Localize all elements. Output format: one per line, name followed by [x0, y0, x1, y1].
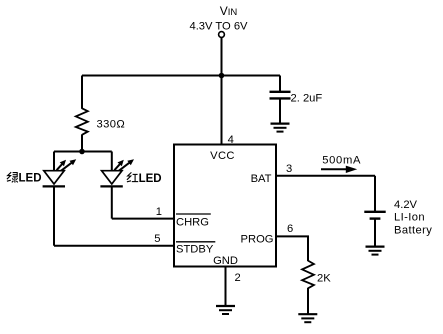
svg-text:2. 2uF: 2. 2uF: [291, 93, 323, 105]
node VIN label: [189, 4, 248, 33]
pin label CHRG overline: [176, 214, 211, 229]
wire D2 anode: [111, 152, 113, 172]
svg-text:2: 2: [235, 272, 241, 284]
wire BAT down to battery: [374, 176, 376, 211]
svg-text:2K: 2K: [317, 272, 331, 284]
svg-text:LED: LED: [19, 172, 42, 184]
wire cap branch down: [279, 76, 281, 92]
ground R2: [298, 314, 317, 322]
ground battery: [366, 247, 385, 255]
LED D1 green: [43, 159, 77, 186]
svg-text:PROG: PROG: [241, 234, 274, 246]
svg-text:5: 5: [154, 233, 160, 245]
svg-text:500mA: 500mA: [322, 155, 361, 167]
LED D2 red: [100, 159, 134, 186]
svg-text:4.2V: 4.2V: [394, 199, 418, 211]
wire horizontal bus: [82, 75, 280, 77]
svg-text:VCC: VCC: [210, 150, 235, 162]
wire to pin 1: [112, 218, 174, 220]
label green LED: [7, 172, 42, 184]
svg-text:CHRG: CHRG: [176, 217, 209, 229]
wire cap to ground: [279, 98, 281, 123]
svg-text:Battery: Battery: [394, 224, 432, 236]
wire D2 cathode down: [111, 186, 113, 218]
svg-text:GND: GND: [213, 255, 238, 267]
label battery: [394, 199, 432, 236]
ground C1: [271, 124, 290, 132]
svg-text:330Ω: 330Ω: [97, 119, 126, 131]
label red LED: [127, 172, 162, 185]
svg-text:6: 6: [287, 223, 293, 235]
svg-text:4.3V TO 6V: 4.3V TO 6V: [189, 21, 248, 33]
svg-text:3: 3: [286, 163, 292, 175]
resistor R2 2K: [302, 261, 331, 289]
wire R1 to LED bus: [81, 134, 83, 151]
svg-text:4: 4: [228, 134, 234, 146]
arrow current: [321, 166, 357, 173]
wire D1 anode: [53, 152, 55, 172]
capacitor C1 2.2uF: [270, 92, 323, 105]
wire LED bus horizontal: [54, 151, 112, 153]
wire pin 2 GND: [225, 267, 227, 306]
svg-text:VIN: VIN: [220, 4, 238, 18]
svg-text:LI-Ion: LI-Ion: [394, 212, 425, 224]
svg-text:1: 1: [156, 206, 162, 218]
op IC U1 body: [174, 145, 276, 267]
junction main node: [219, 73, 225, 79]
resistor R1 330ohm: [76, 108, 125, 135]
junction LED bus: [79, 149, 85, 155]
svg-text:BAT: BAT: [251, 173, 272, 185]
wire to pin 5: [54, 245, 174, 247]
svg-text:STDBY: STDBY: [176, 244, 214, 256]
terminal VIN: [219, 32, 225, 38]
wire VIN vertical to VCC pin 4: [221, 38, 223, 145]
wire left branch down to R1: [81, 76, 83, 109]
wire D1 cathode to pin5: [53, 186, 55, 245]
battery BT1: [364, 212, 385, 246]
wire pin 6 PROG: [276, 236, 308, 261]
wire pin 3 BAT: [276, 175, 375, 177]
ground IC: [216, 306, 235, 314]
svg-text:LED: LED: [139, 173, 162, 185]
pin label STDBY overline: [176, 242, 215, 256]
wire R2 to ground: [307, 288, 309, 314]
